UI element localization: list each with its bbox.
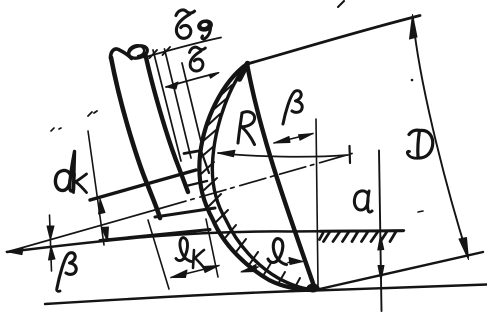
- extension line 1 (disc back face): [153, 50, 181, 161]
- hub flange step top: [184, 151, 201, 154]
- bottom tangent line: [45, 285, 487, 305]
- soil line thick section: [100, 230, 210, 241]
- stray marks upper left: [88, 112, 92, 116]
- delta line right arrowhead: [209, 73, 219, 79]
- dimension line delta-f: [144, 38, 221, 58]
- top line (disc top to D corner): [247, 16, 420, 65]
- soil surface line: [7, 231, 404, 253]
- rising line from disc tip to D arrow: [313, 252, 483, 291]
- dimension line delta: [166, 73, 218, 87]
- shaft tube top cap: [111, 49, 132, 59]
- stray mark top center: [338, 1, 344, 7]
- axis line dash-dot part: [160, 154, 352, 209]
- beta lower arrowhead up: [49, 246, 56, 260]
- journal upper edge: [90, 170, 196, 200]
- a dimension vertical line: [379, 151, 382, 312]
- label D: [409, 130, 420, 134]
- shaft tube right edge: [146, 55, 189, 192]
- shaft tube cap blob: [127, 44, 148, 60]
- a arrowhead up: [378, 235, 384, 250]
- disc chord line: [247, 64, 315, 289]
- l_k arrowhead right: [203, 266, 219, 273]
- shaft tube left edge: [111, 58, 160, 219]
- label beta lower: [57, 253, 76, 288]
- d_k dimension line: [88, 131, 104, 245]
- D arrowhead top: [410, 15, 418, 40]
- beta upper double arrow: [274, 134, 313, 144]
- hub bottom edge: [155, 208, 215, 217]
- label delta-f : phi: [196, 18, 214, 34]
- d_k arrowhead up: [99, 199, 106, 215]
- label l_k : l: [176, 238, 192, 262]
- beta lower angle arrow: [50, 215, 52, 271]
- label delta: [190, 47, 206, 52]
- hub flange right edge: [201, 151, 209, 174]
- soil line right thick section: [320, 229, 403, 233]
- shaft tube cap inner ellipse: [128, 45, 144, 56]
- center cross: [348, 146, 351, 163]
- stray dash right: [418, 211, 423, 212]
- d_k arrowhead down: [102, 227, 109, 242]
- soil hatching: [320, 232, 397, 242]
- hub flange bottom edge: [186, 181, 207, 186]
- beta lower arrowhead down: [47, 226, 54, 240]
- axis line dash-dot: [7, 209, 160, 253]
- l_k dimension line: [171, 266, 219, 278]
- l dimension right arrow: [288, 262, 302, 263]
- label d_k : k: [74, 174, 75, 193]
- l_k arrowhead left: [171, 270, 187, 278]
- disc band inner edge: [212, 66, 311, 290]
- l dimension left arrow: [242, 267, 258, 272]
- extension line 3 (disc front face): [182, 63, 202, 146]
- stray specks left: [51, 128, 54, 131]
- R arrowhead: [218, 150, 235, 157]
- disc band hatching: [200, 71, 300, 289]
- R dimension line: [218, 153, 348, 157]
- tick 2 on delta-f line: [163, 47, 171, 55]
- label l_k : k: [193, 250, 194, 268]
- l_k extension line right: [206, 219, 218, 277]
- tick on delta-f line: [150, 50, 158, 58]
- left arrowhead at beta vertex: [6, 248, 23, 255]
- extension line 2: [165, 49, 192, 158]
- label a: [354, 191, 368, 210]
- label l: [268, 239, 287, 265]
- disc top junction blob: [240, 64, 248, 80]
- l_k extension line left: [148, 220, 169, 289]
- label delta-f : delta: [176, 10, 195, 16]
- disc bottom tip blob: [307, 284, 320, 293]
- a arrowhead down: [378, 266, 384, 281]
- vertical reference line at disc bottom tip: [316, 119, 318, 285]
- disc band outer edge: [199, 64, 314, 290]
- label beta upper: [283, 91, 302, 124]
- delta line left arrowhead: [166, 82, 178, 89]
- dimension line D: [413, 19, 468, 257]
- stray speck right: [411, 79, 414, 82]
- label R: [238, 113, 242, 143]
- D arrowhead bottom: [459, 238, 469, 260]
- label d_k : d: [55, 171, 70, 191]
